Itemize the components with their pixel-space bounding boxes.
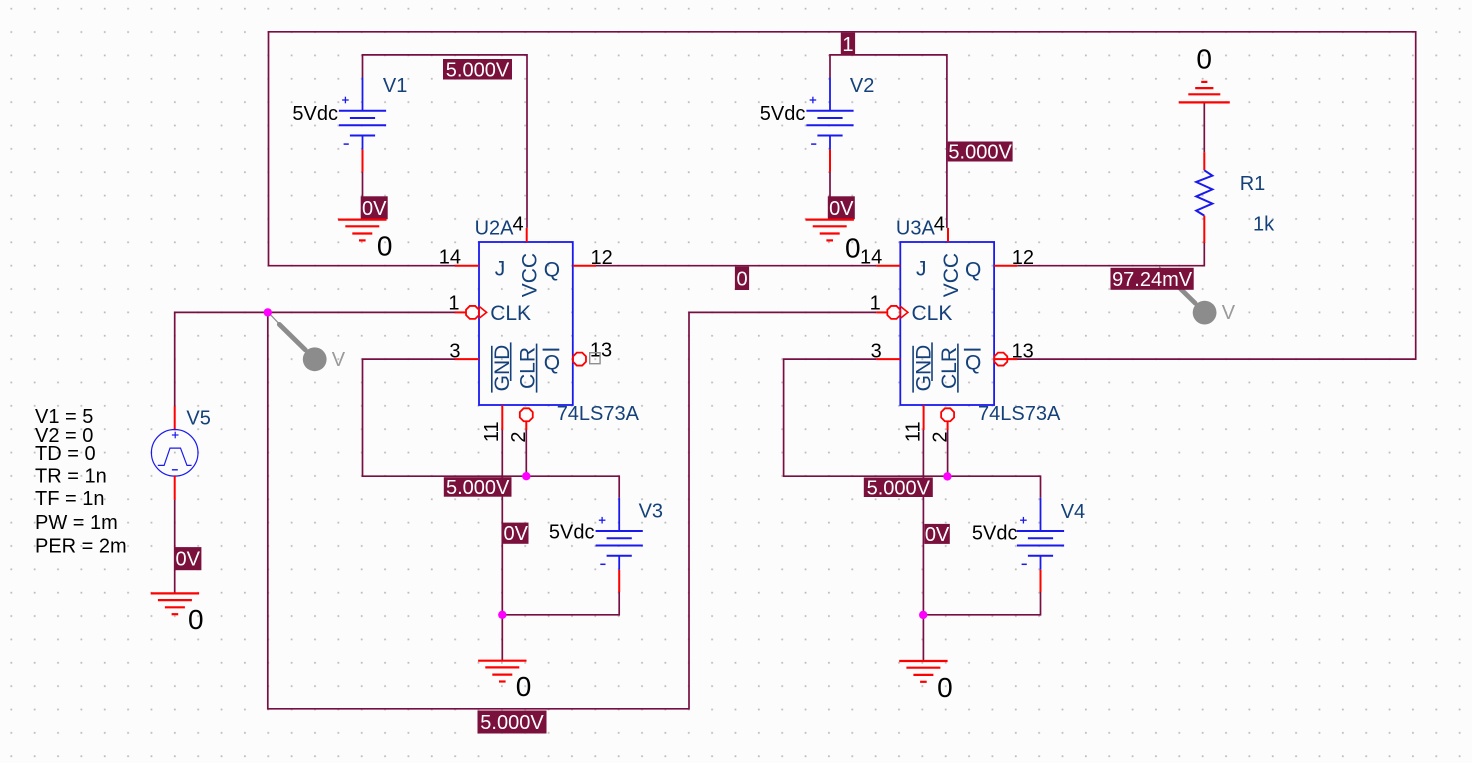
flip-flop U2A body	[479, 242, 573, 405]
svg-text:U3A: U3A	[896, 218, 936, 240]
voltage probe V left	[269, 313, 346, 371]
net label 0V	[503, 523, 529, 546]
pin bubble U3A pin 2	[941, 408, 954, 421]
battery V4	[1017, 498, 1064, 570]
svg-text:V: V	[332, 349, 346, 371]
svg-text:0: 0	[516, 671, 532, 702]
net label 0	[735, 267, 749, 291]
svg-text:3: 3	[449, 341, 460, 363]
svg-text:13: 13	[590, 340, 612, 362]
svg-text:5.000V: 5.000V	[867, 477, 931, 499]
junction	[264, 308, 272, 316]
svg-text:4: 4	[934, 214, 945, 236]
svg-text:1: 1	[842, 34, 853, 56]
pin stub V2 minus	[829, 150, 831, 172]
svg-text:Q: Q	[544, 258, 560, 281]
wire U3A CLR pin2 down	[947, 430, 949, 476]
ground V5	[151, 593, 199, 614]
junction	[498, 611, 506, 619]
flip-flop U3A body	[900, 242, 994, 405]
svg-text:Q: Q	[965, 258, 981, 281]
svg-text:5.000V: 5.000V	[948, 142, 1012, 164]
svg-text:CLK: CLK	[490, 302, 531, 325]
svg-text:0V: 0V	[175, 549, 200, 571]
svg-text:PW = 1m: PW = 1m	[35, 512, 118, 534]
svg-text:TD = 0: TD = 0	[35, 443, 96, 465]
svg-text:4: 4	[513, 214, 524, 236]
pin stub R1 top	[1203, 152, 1205, 170]
net label 0V	[174, 547, 201, 571]
pin bubble U2A CLK	[466, 306, 479, 319]
svg-text:5.000V: 5.000V	[480, 712, 544, 734]
unconnected pin marker U2A pin13	[590, 353, 600, 364]
pin stub V1 minus	[362, 150, 364, 172]
value labels V5 parameters	[35, 406, 127, 558]
net label 5.000V	[478, 711, 547, 735]
svg-text:0: 0	[188, 604, 204, 635]
pin bubble U3A pin 13	[994, 353, 1007, 366]
wire feedback net: U3A Q-bar pin13 to U2A J pin14	[269, 32, 1416, 359]
wire V4 minus to ground rail	[923, 591, 1040, 615]
pulse source V5	[151, 430, 198, 477]
pin names U2A	[490, 253, 560, 393]
pin stub V5 minus	[174, 476, 176, 500]
svg-text:V2: V2	[850, 75, 874, 97]
resistor R1	[1196, 170, 1212, 215]
svg-text:97.24mV: 97.24mV	[1112, 269, 1193, 291]
pin bubble U2A pin 2	[520, 408, 533, 421]
svg-text:0: 0	[845, 233, 861, 264]
svg-text:R1: R1	[1240, 173, 1266, 195]
svg-text:TF = 1n: TF = 1n	[35, 488, 104, 510]
svg-text:5.000V: 5.000V	[446, 59, 510, 81]
svg-text:V5: V5	[186, 408, 210, 430]
junction	[919, 611, 927, 619]
svg-text:PER = 2m: PER = 2m	[35, 536, 127, 558]
pin numbers U3A	[860, 214, 1034, 443]
wire V1 plus to U2A VCC pin4	[363, 55, 528, 228]
svg-text:5Vdc: 5Vdc	[292, 103, 338, 125]
pin stub R1 bottom	[1203, 216, 1205, 243]
net label 0V	[361, 196, 388, 220]
net label 5.000V	[948, 142, 1013, 164]
svg-text:14: 14	[439, 247, 461, 269]
svg-text:1k: 1k	[1253, 214, 1275, 236]
pin stub V3 minus	[618, 570, 620, 592]
svg-text:CLK: CLK	[912, 302, 953, 325]
svg-text:1: 1	[870, 293, 881, 315]
wire U2A GND pin11 down	[501, 430, 503, 615]
svg-text:TR = 1n: TR = 1n	[35, 466, 107, 488]
svg-text:V: V	[1222, 302, 1236, 324]
wire U2A CLR pin3 to V3 plus	[363, 359, 620, 498]
svg-text:5Vdc: 5Vdc	[972, 523, 1018, 545]
svg-text:Q: Q	[544, 351, 560, 374]
svg-text:2: 2	[929, 431, 951, 442]
wire clock net: V5 to U2A CLK	[175, 312, 455, 406]
svg-text:12: 12	[591, 247, 613, 269]
ground V1	[338, 220, 386, 241]
wire V2 minus to ground	[829, 172, 831, 220]
svg-text:5.000V: 5.000V	[446, 477, 510, 499]
wire U3A Q pin12 to R1	[1017, 242, 1204, 266]
net label 5.000V	[443, 59, 512, 81]
pin stub V5 plus	[174, 407, 176, 431]
pin bubble U3A CLK	[887, 306, 900, 319]
svg-text:VCC: VCC	[519, 253, 542, 297]
wire U2A CLR pin2 down	[525, 430, 527, 476]
net label 5.000V	[864, 477, 933, 499]
svg-text:11: 11	[481, 421, 503, 442]
wire U3A GND pin11 down	[922, 430, 924, 615]
svg-text:J: J	[495, 258, 506, 281]
svg-text:0: 0	[736, 268, 747, 290]
pin stubs U2A	[455, 228, 596, 430]
net label 0V	[828, 196, 855, 220]
svg-text:VCC: VCC	[940, 253, 963, 297]
pin stub V4 minus	[1040, 570, 1042, 592]
net label 5.000V	[444, 477, 512, 499]
svg-text:14: 14	[860, 247, 882, 269]
junction	[943, 472, 951, 480]
wire V2 plus to U3A VCC pin4	[830, 55, 947, 228]
pin names U3A	[912, 253, 982, 393]
wire ground to R1 top	[1203, 102, 1205, 152]
svg-text:0V: 0V	[504, 523, 529, 545]
wire ground rail to ground V3	[501, 615, 503, 661]
pin stub U3A pin 13	[994, 358, 1017, 360]
svg-text:U2A: U2A	[475, 218, 515, 240]
svg-text:5Vdc: 5Vdc	[760, 103, 806, 125]
ground V3	[478, 661, 526, 682]
svg-text:0V: 0V	[829, 198, 854, 220]
svg-text:5Vdc: 5Vdc	[549, 522, 595, 544]
svg-text:V1: V1	[383, 75, 407, 97]
wire V1 minus to ground	[362, 172, 364, 220]
svg-text:13: 13	[1012, 341, 1034, 363]
ground top right	[1179, 82, 1230, 103]
svg-text:2: 2	[508, 431, 530, 442]
wire V5 minus to ground	[174, 500, 176, 594]
svg-text:V4: V4	[1061, 501, 1085, 523]
battery V2	[806, 78, 853, 150]
wire ground rail to ground V4	[922, 615, 924, 661]
pin numbers U2A	[439, 214, 613, 443]
wire U2A Q pin12 to U3A J pin14	[596, 265, 876, 267]
svg-text:12: 12	[1012, 247, 1034, 269]
pin stubs U3A	[876, 228, 1017, 430]
wire U3A CLR pin3 to V4 plus	[784, 359, 1041, 498]
svg-text:J: J	[916, 258, 927, 281]
svg-text:74LS73A: 74LS73A	[557, 403, 640, 425]
svg-text:0: 0	[937, 672, 953, 703]
junction	[522, 472, 530, 480]
ground V4	[899, 661, 947, 682]
net label 97.24mV	[1111, 268, 1194, 291]
svg-text:1: 1	[448, 293, 459, 315]
battery V3	[596, 498, 643, 570]
wire clock net branch to U3A CLK	[268, 312, 877, 708]
svg-text:V3: V3	[639, 501, 663, 523]
svg-text:Q: Q	[965, 351, 981, 374]
svg-text:11: 11	[902, 421, 924, 442]
svg-text:0: 0	[377, 231, 393, 262]
svg-text:0V: 0V	[925, 524, 950, 546]
svg-text:0: 0	[1196, 44, 1212, 75]
voltage probe V right	[1159, 267, 1236, 325]
net label 1	[841, 33, 855, 56]
ground V2	[806, 220, 854, 241]
svg-text:3: 3	[871, 341, 882, 363]
pin bubble U2A pin 13	[573, 353, 586, 366]
net label 0V	[924, 524, 950, 546]
battery V1	[339, 78, 386, 150]
wire V3 minus to ground rail	[502, 591, 619, 615]
svg-text:0V: 0V	[362, 198, 387, 220]
svg-text:74LS73A: 74LS73A	[978, 403, 1061, 425]
